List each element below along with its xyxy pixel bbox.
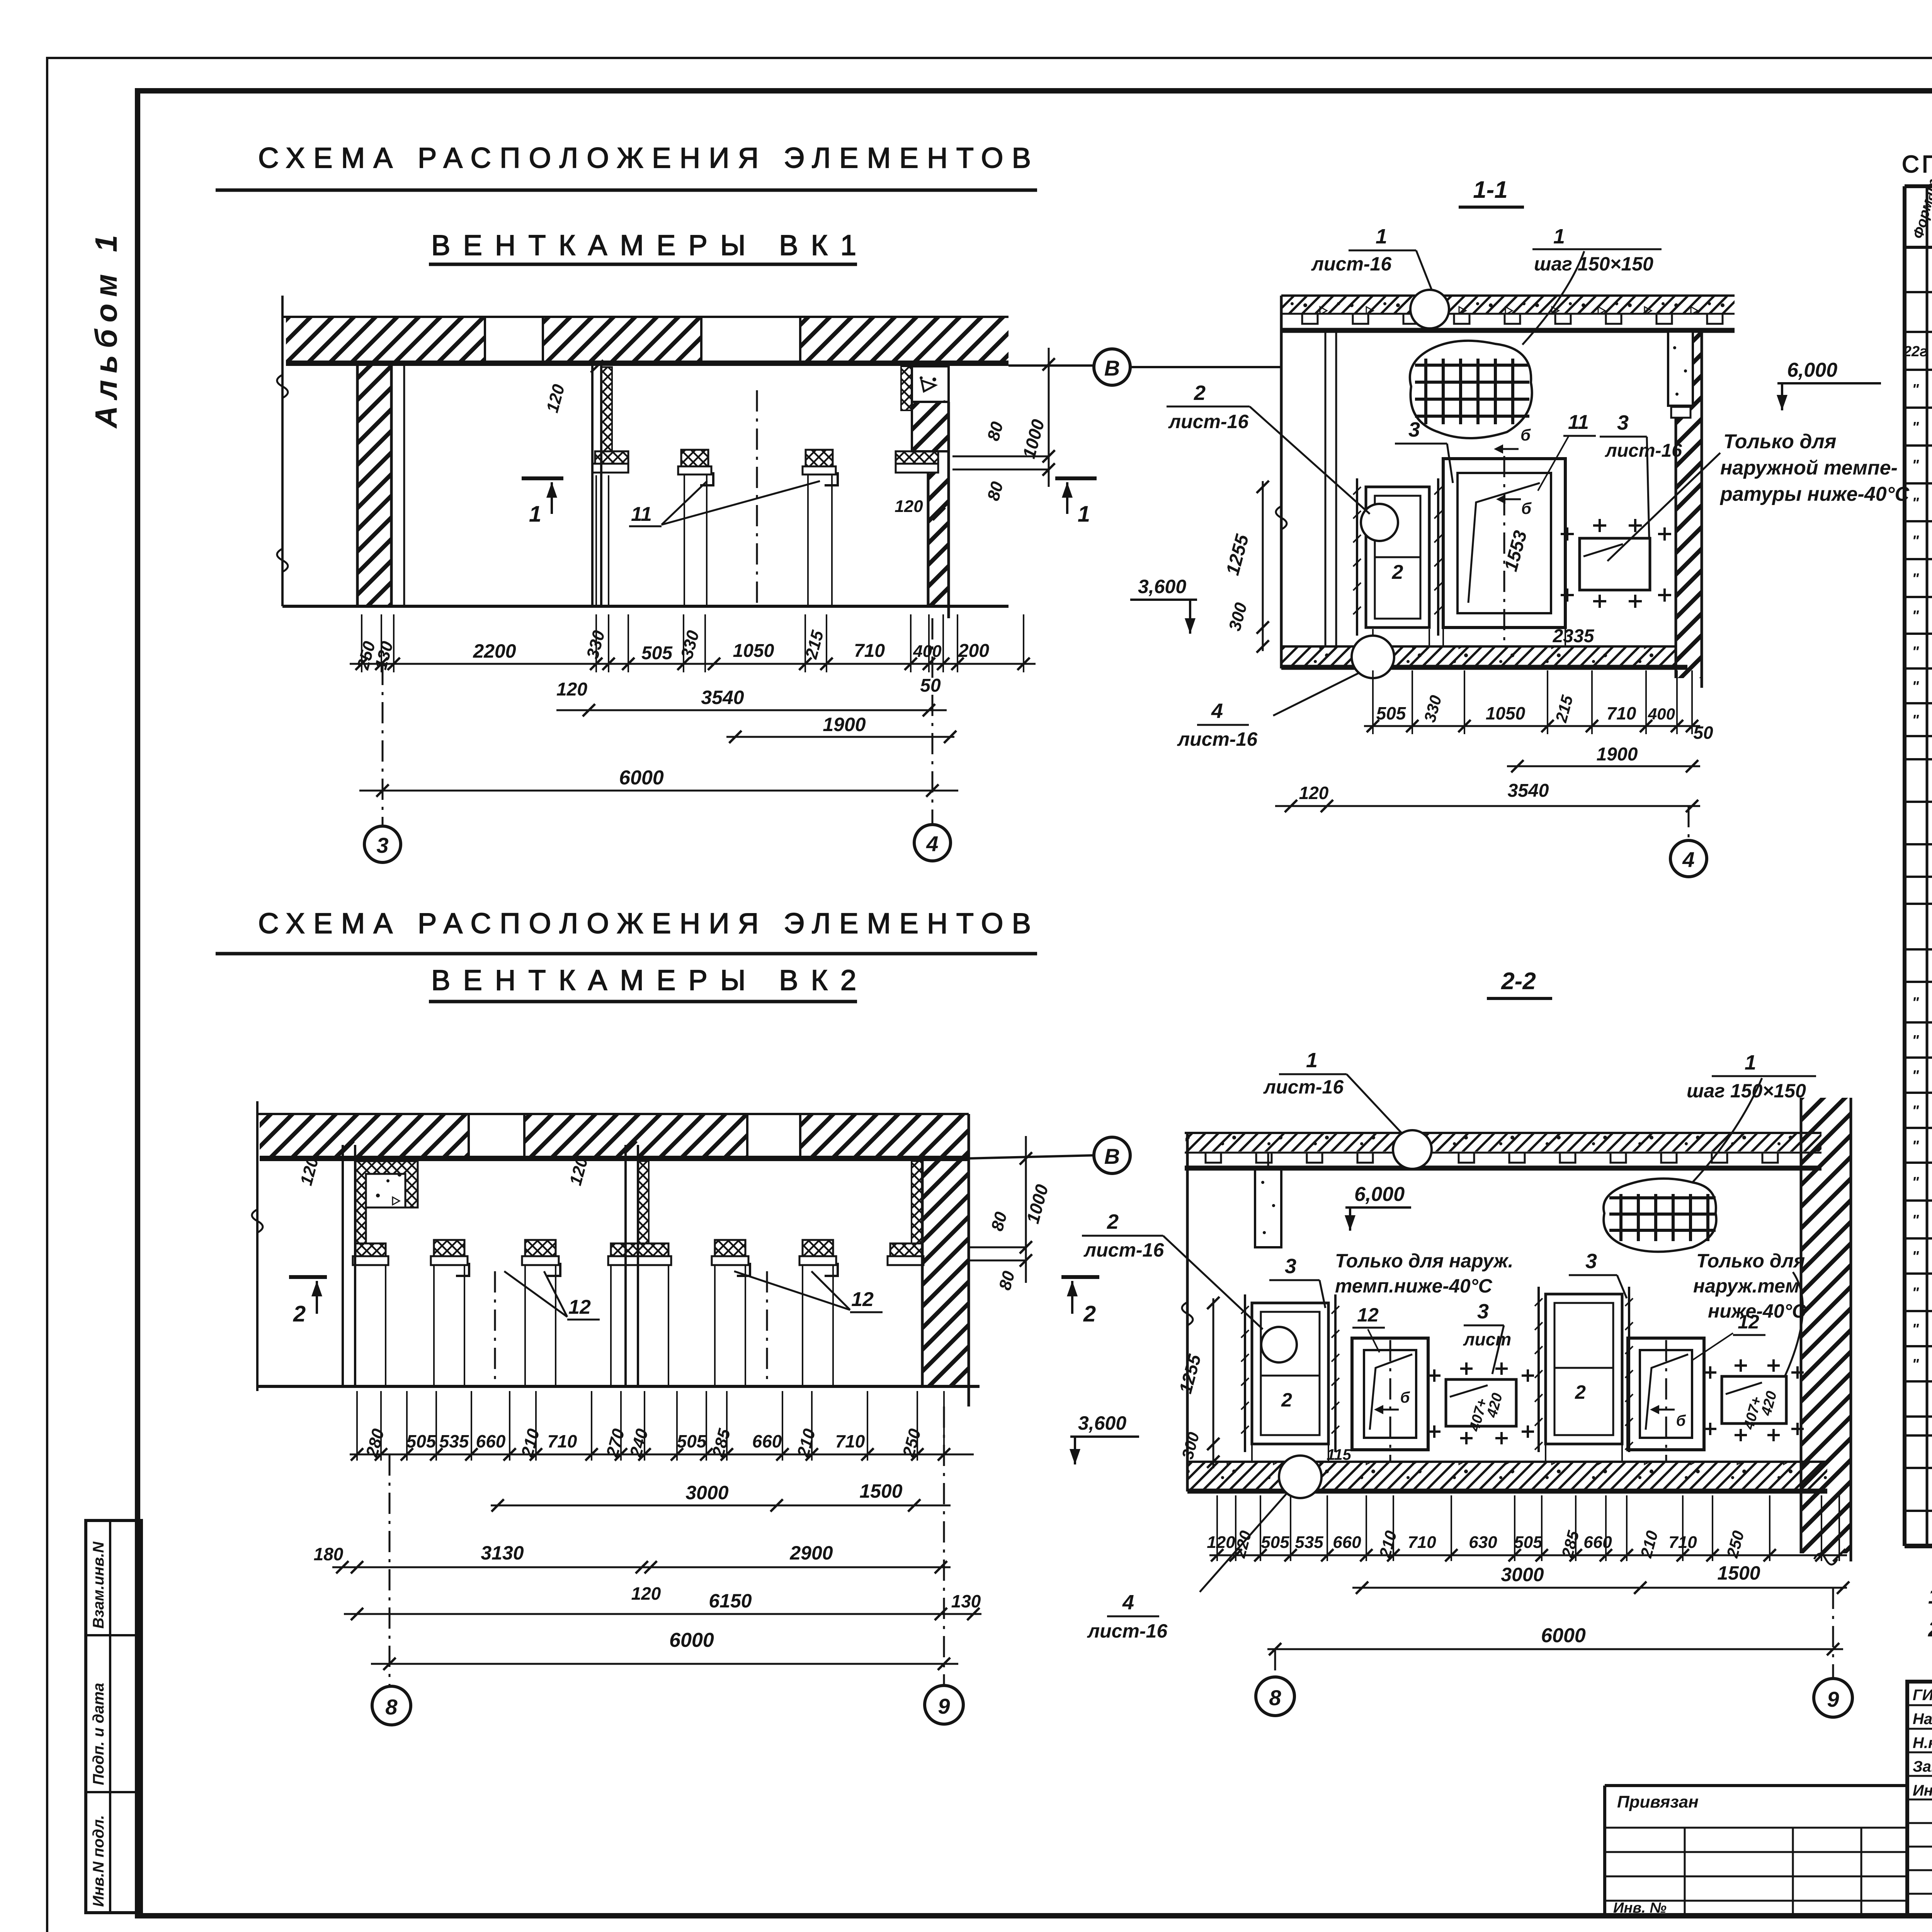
svg-text:": " xyxy=(1912,533,1919,549)
plan VK1 wall face thick line xyxy=(286,361,1009,366)
svg-text:": " xyxy=(1912,679,1919,695)
plan VK1 pier extension lines to floor xyxy=(684,475,685,606)
svg-text:лист-16: лист-16 xyxy=(1311,253,1392,275)
svg-text:1050: 1050 xyxy=(733,641,774,661)
plan VK2 left guide line xyxy=(256,1101,259,1391)
svg-text:400: 400 xyxy=(1648,705,1675,723)
svg-text:2-2: 2-2 xyxy=(1501,968,1536,995)
svg-text:4: 4 xyxy=(1682,847,1694,872)
svg-text:": " xyxy=(1912,381,1919,398)
svg-text:2: 2 xyxy=(293,1301,306,1327)
element 2 frame group2 xyxy=(1546,1294,1622,1444)
plan VK2 mid partition foot xyxy=(611,1243,668,1256)
axis circle B2 xyxy=(1094,1137,1130,1173)
svg-text:130: 130 xyxy=(951,1591,981,1611)
plan VK1 right wall insulation strip xyxy=(901,366,912,410)
svg-text:710: 710 xyxy=(548,1431,577,1451)
plan VK1 dim row 4 xyxy=(359,790,958,792)
plan VK1 room centerline xyxy=(756,390,758,603)
svg-text:3540: 3540 xyxy=(1508,781,1549,801)
weld mark g2 xyxy=(1654,1409,1675,1411)
plan VK2 dim row 1 xyxy=(350,1454,974,1456)
plan VK1 left guide line xyxy=(281,296,284,606)
svg-text:2: 2 xyxy=(1575,1381,1586,1403)
svg-text:710: 710 xyxy=(1607,703,1636,723)
svg-text:ГИП: ГИП xyxy=(1913,1687,1932,1704)
svg-text:120: 120 xyxy=(1299,783,1329,803)
spec table header bottom line xyxy=(1905,246,1932,249)
svg-text:лист-16: лист-16 xyxy=(1177,728,1258,750)
plan VK1 right wall concrete column xyxy=(912,366,949,402)
svg-text:180: 180 xyxy=(314,1544,344,1564)
svg-text:": " xyxy=(1912,1285,1919,1301)
spec table bottom line xyxy=(1905,1544,1932,1548)
plan VK1 dim row 1 xyxy=(350,663,1036,665)
plan VK2 room centerlines xyxy=(494,1271,496,1385)
VK2 right side level dims xyxy=(1025,1136,1027,1283)
axis circle 3 xyxy=(364,826,401,862)
spec row line xyxy=(1905,667,1932,670)
element 2 leader circle g1 xyxy=(1261,1327,1297,1362)
pier pad 1 xyxy=(681,450,708,466)
signature table frame xyxy=(1907,1682,1932,1916)
svg-text:ратуры ниже-40°С: ратуры ниже-40°С xyxy=(1719,483,1910,505)
axis line 3 xyxy=(382,664,384,826)
spec row line xyxy=(1905,1021,1932,1024)
axis line 9 s22 xyxy=(1832,1588,1834,1678)
plan VK1 partition insulation strip xyxy=(601,367,612,451)
svg-text:шаг 150×150: шаг 150×150 xyxy=(1687,1080,1806,1102)
element extension lines to floor 2-2 xyxy=(1251,1445,1253,1462)
svg-text:505: 505 xyxy=(1376,703,1406,723)
mesh grid 2-2 xyxy=(1619,1194,1622,1241)
plan VK1 wall hatch segment 3 xyxy=(800,318,1009,361)
plan VK2 right wall insulation strip xyxy=(912,1161,922,1243)
svg-text:2900: 2900 xyxy=(789,1542,833,1564)
svg-text:": " xyxy=(1912,419,1919,435)
svg-text:11: 11 xyxy=(631,503,652,526)
svg-text:": " xyxy=(1912,1103,1919,1119)
element 12 frame group2 xyxy=(1628,1338,1704,1450)
svg-text:4: 4 xyxy=(1122,1591,1134,1614)
svg-text:1: 1 xyxy=(1078,502,1090,527)
svg-text:2: 2 xyxy=(1083,1301,1096,1327)
section mark 1 right xyxy=(1055,476,1097,480)
svg-text:535: 535 xyxy=(439,1431,469,1451)
vent duct in wall xyxy=(1668,332,1693,406)
plan VK2 wall hatch segment 2 xyxy=(524,1115,747,1156)
svg-text:лист-16: лист-16 xyxy=(1087,1620,1168,1642)
element 2 frame xyxy=(1366,487,1429,628)
svg-text:3: 3 xyxy=(1585,1250,1597,1273)
svg-text:": " xyxy=(1912,1248,1919,1265)
svg-text:22г: 22г xyxy=(1903,344,1928,360)
svg-text:4: 4 xyxy=(926,832,938,856)
svg-text:505: 505 xyxy=(677,1431,707,1451)
section 1-1 roof slab ribs xyxy=(1302,314,1318,324)
spec row line xyxy=(1905,801,1932,803)
axis line 8 xyxy=(389,1454,391,1685)
svg-text:660: 660 xyxy=(476,1431,506,1451)
spec row line xyxy=(1905,1237,1932,1240)
section mark 2 left xyxy=(289,1275,327,1279)
mesh blob 2-2 xyxy=(1604,1179,1716,1252)
svg-text:3130: 3130 xyxy=(481,1542,524,1564)
spec row line xyxy=(1905,444,1932,447)
svg-text:": " xyxy=(1912,457,1919,473)
svg-text:9: 9 xyxy=(938,1694,950,1718)
svg-text:710: 710 xyxy=(835,1431,865,1451)
spec row line xyxy=(1905,482,1932,485)
plan VK2 wall hatch segment 1 xyxy=(260,1115,469,1156)
roof leader circle 2-2 xyxy=(1393,1130,1432,1169)
plan VK2 dim row 2 xyxy=(491,1505,951,1507)
weld mark g1 xyxy=(1378,1409,1399,1411)
section 1-1 roof slab band xyxy=(1281,294,1735,297)
spec row line xyxy=(1905,735,1932,737)
svg-text:660: 660 xyxy=(1333,1533,1361,1552)
section 2-2 roof slab band xyxy=(1185,1132,1821,1134)
svg-text:2200: 2200 xyxy=(473,640,516,662)
svg-text:9: 9 xyxy=(1827,1687,1839,1711)
svg-text:6150: 6150 xyxy=(709,1590,752,1612)
roof slab leader circle xyxy=(1410,290,1449,328)
element 3 plate xyxy=(1580,538,1650,590)
svg-text:3540: 3540 xyxy=(701,687,744,708)
svg-text:2: 2 xyxy=(1194,381,1206,405)
plan VK1 left wall xyxy=(357,363,391,606)
svg-text:Только для: Только для xyxy=(1723,430,1836,453)
svg-text:200: 200 xyxy=(958,641,989,661)
plan VK2 dim row 4 xyxy=(344,1613,981,1615)
svg-text:2. Балку по оси 4 в месте возд: 2. Балку по оси 4 в месте воздухозаборно… xyxy=(1928,1617,1932,1641)
left vertical dim 1255 s22 xyxy=(1213,1298,1214,1468)
svg-text:1: 1 xyxy=(1376,225,1387,248)
element 11 frame xyxy=(1443,459,1565,628)
plan VK2 wall face thick line xyxy=(260,1156,969,1161)
svg-text:1: 1 xyxy=(1745,1051,1756,1074)
plan VK2 left partition foot xyxy=(355,1243,386,1256)
svg-text:": " xyxy=(1912,644,1919,660)
svg-text:темп.ниже-40°С: темп.ниже-40°С xyxy=(1335,1275,1493,1297)
svg-text:Привязан: Привязан xyxy=(1617,1793,1699,1811)
plan VK2 pier extension lines to floor xyxy=(433,1266,435,1386)
svg-text:Только для наруж.: Только для наруж. xyxy=(1335,1250,1513,1272)
svg-text:лист: лист xyxy=(1463,1329,1511,1349)
axis line 4 xyxy=(932,618,934,825)
svg-text:2335: 2335 xyxy=(1553,626,1595,646)
svg-text:": " xyxy=(1912,1068,1919,1084)
plan VK1 right wall upper xyxy=(912,402,949,451)
axis line to circle B xyxy=(1009,364,1094,367)
section 2-2 dim row 2 xyxy=(1352,1587,1847,1589)
element 3 plate group1 xyxy=(1446,1379,1516,1426)
section 1-1 right wall xyxy=(1676,330,1702,678)
svg-text:50: 50 xyxy=(920,675,941,696)
spec table grid verticals xyxy=(1903,186,1906,1546)
svg-text:Только для: Только для xyxy=(1696,1250,1805,1272)
section 1-1 dim row 2 xyxy=(1507,765,1700,767)
spec row line xyxy=(1905,1310,1932,1312)
section mark 2 right xyxy=(1061,1275,1099,1279)
spec row line xyxy=(1905,520,1932,522)
svg-text:120: 120 xyxy=(631,1583,661,1604)
svg-text:4: 4 xyxy=(1211,699,1223,723)
svg-text:В: В xyxy=(1104,1144,1120,1168)
svg-text:СПЕЦИФИКАЦИЯ ЭЛЕМЕНТОВ К СХЕМА: СПЕЦИФИКАЦИЯ ЭЛЕМЕНТОВ К СХЕМАМ ВЕНТКАМЕ… xyxy=(1902,151,1932,178)
element centerlines 2-2 xyxy=(1389,1340,1391,1461)
svg-text:б: б xyxy=(1400,1389,1410,1406)
svg-text:наружной темпе-: наружной темпе- xyxy=(1720,457,1898,479)
svg-text:Инв.N подл.: Инв.N подл. xyxy=(90,1815,107,1907)
spec row line xyxy=(1905,1092,1932,1094)
spec row line xyxy=(1905,369,1932,371)
element 2 frame group1 xyxy=(1252,1303,1328,1444)
svg-text:710: 710 xyxy=(1408,1533,1436,1552)
svg-text:1: 1 xyxy=(1553,225,1565,248)
element 11 centerline xyxy=(1503,456,1505,645)
plan VK1 dim row 2 xyxy=(556,709,947,711)
svg-text:50: 50 xyxy=(1693,723,1713,743)
plan VK2 extension lines xyxy=(356,1391,358,1461)
privyazan grid columns xyxy=(1684,1828,1686,1916)
svg-text:Зав.гр.: Зав.гр. xyxy=(1913,1758,1932,1775)
right side level dim line xyxy=(1048,348,1050,487)
svg-text:3: 3 xyxy=(1477,1300,1489,1323)
plan VK1 floor line xyxy=(282,605,1009,608)
section 2-2 floor slab xyxy=(1187,1461,1827,1463)
plan VK2 dim row 5 xyxy=(371,1663,958,1665)
spec row line xyxy=(1905,702,1932,704)
svg-text:2: 2 xyxy=(1392,561,1403,583)
svg-text:б: б xyxy=(1520,426,1531,444)
svg-text:8: 8 xyxy=(1269,1685,1281,1710)
svg-text:3: 3 xyxy=(1285,1255,1296,1278)
spec row line xyxy=(1905,1415,1932,1418)
plan VK2 right wall foot xyxy=(890,1243,922,1256)
spec row line xyxy=(1905,1162,1932,1164)
svg-text:505: 505 xyxy=(1261,1533,1289,1552)
spec row line xyxy=(1905,406,1932,409)
svg-text:": " xyxy=(1912,1321,1919,1337)
spec row line xyxy=(1905,876,1932,878)
element 3 plus marks xyxy=(1561,533,1574,535)
privyazan grid rows xyxy=(1605,1827,1907,1829)
svg-text:660: 660 xyxy=(752,1431,782,1451)
floor leader circle 2-2 xyxy=(1279,1456,1321,1498)
plan VK2 mid partition studs xyxy=(624,1145,627,1386)
svg-text:505: 505 xyxy=(1514,1533,1543,1552)
hanging column 2-2 xyxy=(1255,1168,1281,1247)
section 2-2 left edge xyxy=(1186,1133,1189,1492)
svg-text:3,600: 3,600 xyxy=(1078,1412,1126,1434)
spec row line xyxy=(1905,1510,1932,1512)
plan VK2 right wall xyxy=(922,1158,969,1386)
axis line to circle B2 xyxy=(969,1155,1094,1158)
svg-text:505: 505 xyxy=(406,1431,437,1451)
spec row line xyxy=(1905,291,1932,293)
plan VK2 dim row 3 xyxy=(332,1566,951,1568)
svg-text:3: 3 xyxy=(1408,418,1420,441)
svg-text:1050: 1050 xyxy=(1486,703,1526,723)
svg-text:": " xyxy=(1912,1212,1919,1228)
section 2-2 roof slab ribs xyxy=(1206,1153,1221,1163)
spec row line xyxy=(1905,1056,1932,1059)
section 1-1 floor slab xyxy=(1281,645,1676,648)
svg-text:535: 535 xyxy=(1295,1533,1323,1552)
svg-text:1. Данный лист см. совместно с: 1. Данный лист см. совместно с листом КЖ… xyxy=(1928,1584,1932,1608)
svg-text:": " xyxy=(1912,1032,1919,1049)
axis line 4 section xyxy=(1688,806,1690,839)
svg-text:": " xyxy=(1912,1356,1919,1372)
spec row line xyxy=(1905,1345,1932,1347)
svg-text:1500: 1500 xyxy=(1717,1562,1760,1584)
svg-text:Взам.инв.N: Взам.инв.N xyxy=(90,1541,107,1629)
svg-text:710: 710 xyxy=(1668,1533,1697,1552)
element 2 leader circle xyxy=(1361,504,1398,541)
svg-text:1: 1 xyxy=(529,502,541,527)
left vertical dim 1255 xyxy=(1262,481,1264,651)
svg-text:6000: 6000 xyxy=(669,1629,714,1651)
svg-text:": " xyxy=(1912,571,1919,587)
svg-text:400: 400 xyxy=(913,642,942,661)
plan VK2 floor line xyxy=(257,1385,980,1388)
weld mark top xyxy=(1498,448,1519,450)
svg-text:3: 3 xyxy=(1617,411,1629,434)
svg-text:Нач.отд.: Нач.отд. xyxy=(1913,1711,1932,1728)
plan VK2 top wall line xyxy=(257,1113,969,1115)
section 1-1 interior wall lines xyxy=(1325,330,1327,646)
axis circle 9 xyxy=(925,1685,963,1724)
section 2-2 right wall xyxy=(1801,1098,1851,1553)
weld mark mid xyxy=(1500,498,1521,500)
element extension lines to floor 1-1 xyxy=(1372,629,1374,646)
reinforcement mesh blob xyxy=(1410,341,1532,438)
section 1-1 extension lines xyxy=(1372,670,1374,734)
element 12 frame group1 xyxy=(1352,1338,1428,1450)
spec row line xyxy=(1905,331,1932,333)
section 1-1 left wall edge xyxy=(1280,296,1283,668)
plan VK2 left insulation corner xyxy=(355,1161,418,1174)
spec row line xyxy=(1905,1467,1932,1469)
svg-text:шаг 150×150: шаг 150×150 xyxy=(1534,253,1653,275)
section mark 1 left xyxy=(522,476,563,480)
svg-text:б: б xyxy=(1521,499,1532,517)
spec row line xyxy=(1905,1199,1932,1202)
svg-text:": " xyxy=(1912,712,1919,728)
svg-text:11: 11 xyxy=(1568,411,1589,434)
spec row line xyxy=(1905,1272,1932,1275)
plan VK1 partition stud walls xyxy=(591,363,594,606)
axis circle B xyxy=(1094,349,1130,385)
spec row line xyxy=(1905,1380,1932,1383)
plan VK1 dim row 3 xyxy=(726,736,954,738)
axis line 9 xyxy=(943,1406,945,1685)
svg-text:В: В xyxy=(1104,356,1120,380)
svg-text:12: 12 xyxy=(851,1288,874,1311)
spec row line xyxy=(1905,903,1932,905)
svg-text:лист-16: лист-16 xyxy=(1605,440,1682,461)
plan VK1 wall hatch segment 2 xyxy=(543,318,701,361)
svg-text:8: 8 xyxy=(385,1695,398,1719)
reinforcement mesh grid xyxy=(1424,359,1427,424)
plan VK1 top wall line xyxy=(282,316,1009,318)
spec row line xyxy=(1905,558,1932,560)
section 1-1 dim row 3 xyxy=(1275,805,1700,807)
svg-text:лист-16: лист-16 xyxy=(1263,1076,1344,1098)
svg-text:1900: 1900 xyxy=(1597,744,1638,765)
plan VK1 right wall lower xyxy=(928,473,949,606)
spec row line xyxy=(1905,981,1932,983)
svg-text:1-1: 1-1 xyxy=(1473,177,1508,203)
plan VK2 mid insulation strip xyxy=(638,1161,649,1243)
svg-text:1900: 1900 xyxy=(823,714,866,735)
axis line 8 s22 xyxy=(1274,1649,1276,1676)
svg-text:": " xyxy=(1912,495,1919,511)
svg-text:6000: 6000 xyxy=(1541,1624,1586,1647)
element 3 plate group2 xyxy=(1722,1376,1786,1423)
svg-text:120: 120 xyxy=(556,679,587,700)
axis circle 8 xyxy=(372,1686,411,1725)
plan VK1 right wall foot pad xyxy=(896,451,938,464)
spec row line xyxy=(1905,1434,1932,1437)
svg-text:": " xyxy=(1912,1138,1919,1154)
spec row line xyxy=(1905,1127,1932,1129)
spec row line xyxy=(1905,758,1932,760)
svg-text:120: 120 xyxy=(1207,1533,1235,1552)
spec row line xyxy=(1905,843,1932,845)
spec table top line xyxy=(1905,184,1932,188)
svg-text:лист-16: лист-16 xyxy=(1083,1239,1164,1261)
axis line B to section xyxy=(1130,366,1281,368)
svg-text:3000: 3000 xyxy=(1501,1564,1544,1585)
svg-text:3,600: 3,600 xyxy=(1138,576,1186,597)
plan VK2 left partition studs xyxy=(342,1145,344,1386)
svg-text:": " xyxy=(1912,1174,1919,1190)
svg-text:Н.контр.: Н.контр. xyxy=(1913,1735,1932,1752)
plan VK1 left wall inner line xyxy=(403,363,405,606)
svg-text:3: 3 xyxy=(376,833,388,857)
svg-text:660: 660 xyxy=(1583,1533,1612,1552)
axis circle 4 section xyxy=(1670,840,1707,877)
svg-text:6,000: 6,000 xyxy=(1354,1183,1405,1206)
svg-text:2: 2 xyxy=(1281,1389,1292,1411)
section 2-2 dim row 1 xyxy=(1209,1554,1847,1556)
axis circle 4 xyxy=(914,825,951,861)
spec row line xyxy=(1905,633,1932,635)
floor leader circle xyxy=(1352,636,1394,678)
svg-text:115: 115 xyxy=(1327,1446,1352,1463)
section 1-1 roof slab soffit line xyxy=(1281,328,1735,333)
plan VK1 wall hatch segment 1 xyxy=(286,318,485,361)
svg-text:": " xyxy=(1912,995,1919,1011)
spec row line xyxy=(1905,596,1932,598)
signature table rows xyxy=(1907,1704,1932,1706)
svg-text:6000: 6000 xyxy=(619,767,664,789)
axis circle 9 s22 xyxy=(1814,1679,1852,1717)
svg-text:12: 12 xyxy=(568,1296,591,1318)
section 2-2 roof soffit line xyxy=(1185,1166,1821,1171)
section 2-2 dim row 3 xyxy=(1267,1648,1843,1650)
svg-text:120: 120 xyxy=(895,497,923,516)
plan VK1 partition foot pad xyxy=(595,451,628,464)
svg-text:Инв. №: Инв. № xyxy=(1613,1900,1667,1916)
plan VK1 extension lines xyxy=(361,614,362,672)
svg-text:2: 2 xyxy=(1107,1210,1119,1233)
svg-text:б: б xyxy=(1676,1412,1686,1429)
svg-text:12: 12 xyxy=(1357,1304,1379,1326)
pier pad 2 xyxy=(806,450,833,466)
